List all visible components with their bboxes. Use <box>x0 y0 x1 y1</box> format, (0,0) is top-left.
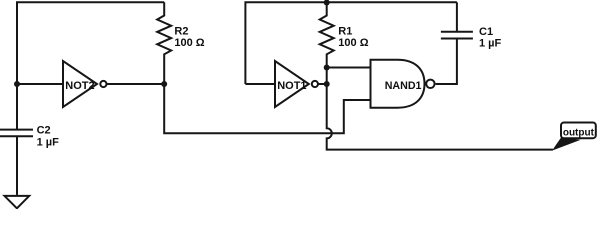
ground <box>5 196 30 208</box>
capacitor C2 <box>0 130 33 137</box>
wire: C2 bottom to ground <box>16 136 18 195</box>
svg-text:R2: R2 <box>174 25 188 37</box>
flag output tail <box>552 137 581 151</box>
resistor R2 <box>157 2 171 84</box>
svg-text:NAND1: NAND1 <box>385 80 422 92</box>
svg-text:R1: R1 <box>338 25 352 37</box>
wire: NOT2 input stub <box>17 83 63 85</box>
wire: NOT1 output to vertical net <box>318 83 327 85</box>
svg-text:NOT2: NOT2 <box>65 80 94 92</box>
svg-text:1 µF: 1 µF <box>479 38 502 50</box>
svg-text:C1: C1 <box>479 26 493 38</box>
flag output box <box>561 123 596 139</box>
node: R1 top junction <box>324 0 330 6</box>
wire: left oscillator top feedback rail (NOT2 input net) <box>17 2 164 129</box>
svg-text:C2: C2 <box>37 125 51 137</box>
inverter NOT1 <box>275 61 309 107</box>
svg-text:100 Ω: 100 Ω <box>338 37 368 49</box>
wire: NAND1 pin A stub <box>327 67 371 69</box>
capacitor C1 <box>441 32 473 39</box>
wire: NOT2 output to R2 bottom <box>107 83 165 85</box>
svg-text:100 Ω: 100 Ω <box>174 37 204 49</box>
wire: right oscillator top rail (NOT1 input net) <box>245 2 457 84</box>
wire: NOT1 input stub <box>245 83 275 85</box>
svg-text:1 µF: 1 µF <box>37 136 60 148</box>
node: NOT1 output junction <box>324 81 330 87</box>
svg-text:output: output <box>563 127 595 138</box>
nand gate NAND1 <box>371 60 425 108</box>
resistor R1 <box>320 2 334 67</box>
node: NAND1 pin A junction <box>324 65 330 71</box>
inverter NOT2 <box>63 61 97 107</box>
wire: NOT1 output node down with hop over crossing to output run <box>327 68 553 150</box>
wire: NAND1 output to C1 <box>436 39 457 85</box>
wire: top rail into C1 <box>456 2 458 32</box>
node: NOT2 input junction <box>14 81 20 87</box>
svg-text:NOT1: NOT1 <box>277 80 306 92</box>
wire: NOT2 output node down and right to NAND1 pin B <box>164 84 370 133</box>
node: NOT2 output junction <box>161 81 167 87</box>
